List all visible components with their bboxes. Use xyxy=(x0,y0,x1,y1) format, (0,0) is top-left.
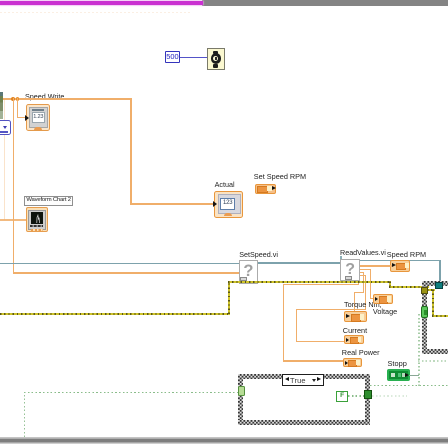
case selector tunnel xyxy=(238,386,245,396)
boolean constant F xyxy=(336,391,348,402)
arrow into Speed Write indicator xyxy=(25,115,29,121)
wire ReadValues to Voltage xyxy=(360,269,371,270)
wire horizontal into SetSpeed.vi xyxy=(13,272,239,273)
wire error vertical up to SetSpeed xyxy=(228,281,230,314)
wire junction dot 1 xyxy=(11,97,15,101)
wire right segment down to Actual xyxy=(130,98,131,205)
indicator Voltage xyxy=(373,294,393,304)
label box Waveform Chart 2 xyxy=(24,196,73,206)
wire boolean vertical to loop tunnel xyxy=(418,312,419,386)
case interior xyxy=(243,379,366,420)
wire (blue) 500 to Wait xyxy=(180,57,207,58)
wire (orange) Speed Write main horizontal xyxy=(0,98,132,100)
wire error into loop xyxy=(389,286,429,288)
wire (error, olive dashed) long left xyxy=(0,313,230,315)
faint wire branch to chart xyxy=(4,98,5,220)
control Set Speed RPM xyxy=(255,184,276,194)
ReadValues.vi bottom terminal nub xyxy=(345,276,353,280)
numeric indicator Speed Write (1.23) xyxy=(26,104,51,131)
wire error inside loop xyxy=(427,289,435,291)
label Actual xyxy=(215,180,235,189)
indicator Real Power xyxy=(343,358,362,367)
Wait (ms) function U1 xyxy=(207,48,225,71)
label Stopp xyxy=(388,359,407,368)
wire to waveform chart xyxy=(0,219,27,220)
faint dotted wire row top xyxy=(0,12,190,13)
numeric indicator Actual (123) xyxy=(214,191,244,219)
wire teal ReadValues to loop xyxy=(360,260,440,262)
label SetSpeed.vi xyxy=(239,250,278,259)
wire vertical to SetSpeed.vi xyxy=(13,98,14,273)
label Voltage xyxy=(373,307,397,316)
label Speed Write xyxy=(25,92,64,101)
while loop border (right, partial) xyxy=(422,281,448,286)
label Set Speed RPM xyxy=(254,172,306,181)
bottom gray window edge xyxy=(0,437,448,444)
tunnel (teal) on loop top xyxy=(435,282,442,289)
wire error SetSpeed to ReadValues to right xyxy=(228,281,390,283)
wire branch to Speed Write indicator xyxy=(17,98,18,118)
enum constant (cut off at left edge) xyxy=(0,120,11,136)
magenta divider line xyxy=(0,1,203,4)
wire from Stopp xyxy=(409,375,420,376)
tunnel (boolean) on loop left xyxy=(421,306,428,318)
subVI ReadValues.vi xyxy=(340,259,360,281)
tunnel (error) on loop left xyxy=(421,287,429,294)
indicator Torque xyxy=(344,311,367,322)
wire error jog down xyxy=(389,281,391,287)
SetSpeed.vi bottom terminal nub xyxy=(240,277,248,281)
label Real Power xyxy=(342,348,380,357)
label Current xyxy=(343,326,367,335)
wire F to tunnel xyxy=(348,395,364,396)
indicator Speed RPM xyxy=(390,260,411,272)
label ReadValues.vi xyxy=(340,248,386,257)
wire ReadValues to Speed RPM xyxy=(360,265,392,266)
subVI SetSpeed.vi xyxy=(239,260,259,285)
label Torque Nm xyxy=(344,300,382,309)
wire boolean right segment below Stopp xyxy=(370,385,448,386)
wire (boolean dashed) long into case selector xyxy=(24,392,239,393)
wire (teal) DAQ task into SetSpeed xyxy=(0,263,239,265)
wire boolean vertical bottom left xyxy=(24,392,25,438)
tunnel on case right border xyxy=(364,390,372,399)
top gray window edge xyxy=(202,0,448,6)
faint boolean wire right of loop xyxy=(418,360,448,361)
boolean control Stopp xyxy=(387,369,410,381)
case selector label True xyxy=(282,374,324,386)
wire ReadValues to Torque xyxy=(360,272,364,273)
wire teal stub at ReadValues left xyxy=(340,256,341,263)
label Speed RPM xyxy=(387,250,426,259)
waveform chart terminal xyxy=(26,207,48,232)
wire ReadValues to Real Power xyxy=(358,281,359,285)
faint wire right of tunnel xyxy=(372,395,407,396)
numeric constant 500 xyxy=(165,51,180,63)
wire teal SetSpeed to ReadValues xyxy=(258,262,342,264)
indicator Current xyxy=(344,335,364,345)
icon sliver cut off at left edge xyxy=(0,92,3,119)
wire junction dot 2 xyxy=(16,97,20,101)
arrow into Actual xyxy=(213,201,217,207)
wire ReadValues to Current xyxy=(360,275,366,276)
case structure border xyxy=(238,374,370,379)
